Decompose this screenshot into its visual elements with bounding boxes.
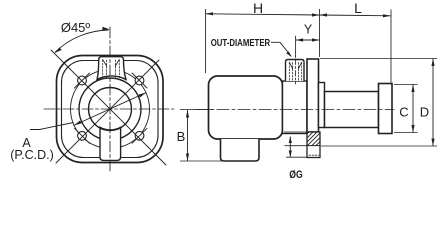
ext line B top bbox=[180, 109, 213, 111]
dim G line bbox=[289, 137, 291, 158]
bolt hole top-left bbox=[78, 76, 87, 85]
ext line flange face bbox=[319, 9, 321, 57]
svg-text:ØG: ØG bbox=[289, 169, 303, 181]
port bore line bbox=[307, 145, 320, 147]
svg-text:Ø45º: Ø45º bbox=[61, 20, 91, 35]
ext line L right bbox=[390, 10, 392, 83]
ext line B bottom bbox=[180, 160, 222, 162]
svg-text:OUT-DIAMETER: OUT-DIAMETER bbox=[211, 38, 271, 49]
top boss chamfer marks bbox=[103, 60, 120, 67]
outlet chamfer marks bbox=[289, 62, 301, 68]
arrowheads Y bbox=[296, 38, 304, 41]
end cap bbox=[379, 84, 393, 134]
section hatching bbox=[302, 128, 328, 148]
port thread dashes bbox=[309, 154, 319, 156]
diagonal centerline NE-SW bbox=[56, 60, 159, 163]
ext line Y left / outlet centerline bbox=[295, 36, 297, 58]
ext line G bottom bbox=[286, 156, 307, 158]
mounting flange bbox=[307, 59, 319, 132]
dim H line bbox=[206, 14, 320, 15]
bolt hole top-right bbox=[135, 76, 144, 85]
dim C line bbox=[412, 85, 414, 133]
arrowhead OUT-DIAMETER leader bbox=[286, 51, 292, 57]
flange hub bbox=[319, 83, 325, 128]
outlet port block bbox=[286, 60, 305, 82]
ext line H left bbox=[205, 9, 207, 73]
column tube bbox=[325, 92, 379, 128]
svg-text:(P.C.D.): (P.C.D.) bbox=[10, 148, 54, 162]
motor foot bbox=[221, 139, 260, 161]
horizontal centerline bbox=[44, 108, 174, 110]
diagonal centerline NW-SE bbox=[51, 50, 166, 165]
P.C.D. diameter arrowheads bbox=[74, 121, 82, 126]
suction port body bbox=[307, 132, 320, 158]
ext line G top bbox=[285, 145, 307, 147]
arrowheads H bbox=[206, 12, 214, 15]
flange inner contour bbox=[62, 61, 159, 158]
bolt circle P.C.D. bbox=[71, 70, 150, 149]
ext line C top bbox=[394, 84, 418, 86]
svg-text:D: D bbox=[420, 105, 429, 120]
svg-text:H: H bbox=[253, 0, 263, 16]
svg-text:L: L bbox=[354, 0, 362, 16]
ext line D bottom bbox=[321, 145, 437, 147]
flange outer square bbox=[57, 56, 164, 163]
ext line port top bbox=[284, 131, 307, 133]
arrowheads D bbox=[431, 59, 434, 67]
top boss hidden bore dashes bbox=[103, 60, 120, 78]
motor body bbox=[209, 76, 283, 139]
P.C.D. diameter line bbox=[74, 93, 146, 126]
dim Y line bbox=[296, 39, 320, 41]
ext line C bottom bbox=[394, 132, 418, 134]
ext line D top bbox=[320, 58, 437, 60]
outlet hidden bore dashes bbox=[289, 63, 301, 81]
bolt hole bottom-left bbox=[78, 131, 87, 140]
pilot circle bbox=[79, 78, 141, 140]
svg-text:B: B bbox=[177, 129, 186, 144]
svg-text:Y: Y bbox=[304, 23, 313, 37]
bolt hole bottom-right bbox=[135, 131, 144, 140]
arrowheads B bbox=[186, 110, 189, 118]
pump casing bbox=[283, 81, 308, 134]
arrowheads C bbox=[411, 85, 414, 93]
leader OUT-DIAMETER bbox=[271, 42, 291, 56]
dim D line bbox=[432, 59, 434, 147]
arrowheads G bbox=[289, 136, 292, 143]
vertical centerline bbox=[109, 27, 111, 172]
svg-text:C: C bbox=[399, 105, 408, 120]
main horizontal centerline bbox=[196, 109, 394, 111]
dim B line bbox=[187, 110, 189, 161]
central bore circle bbox=[89, 88, 132, 131]
leader A to P.C.D. bbox=[30, 123, 74, 130]
angle dimension arc 45deg bbox=[55, 30, 109, 52]
dim L line bbox=[320, 14, 391, 17]
arrowheads L bbox=[320, 13, 328, 16]
bottom boss bbox=[100, 127, 121, 160]
bolt hole cross ticks bbox=[75, 73, 148, 143]
top boss bbox=[97, 57, 126, 80]
